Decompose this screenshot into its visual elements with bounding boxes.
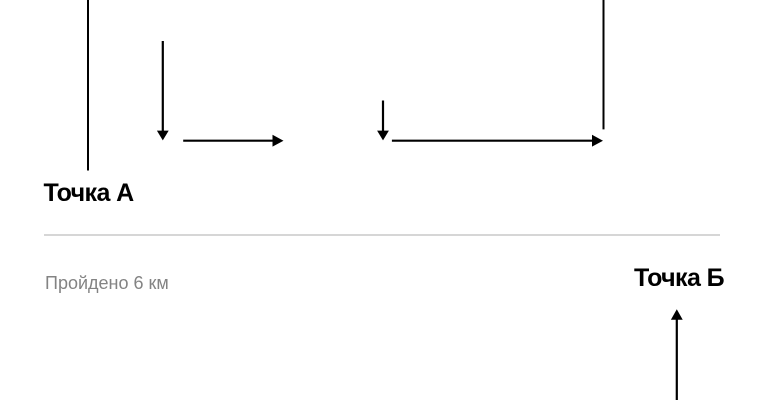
arrow: second downward route arrow — [377, 101, 389, 141]
arrow: first rightward route arrow — [183, 135, 283, 147]
node B: label "Точка Б" — [634, 266, 724, 291]
divider: light gray horizontal separator — [44, 234, 720, 236]
node A: label "Точка А" — [44, 181, 134, 206]
wire: right vertical route segment from top edge — [603, 0, 605, 129]
arrow: first downward route arrow — [157, 41, 169, 140]
caption: distance travelled "Пройдено 6 км" — [45, 274, 169, 292]
arrow: upward route arrow toward Point B — [671, 309, 683, 400]
wire: left vertical route segment from top edge down to Point A — [87, 0, 89, 171]
arrow: second rightward route arrow — [392, 135, 603, 147]
